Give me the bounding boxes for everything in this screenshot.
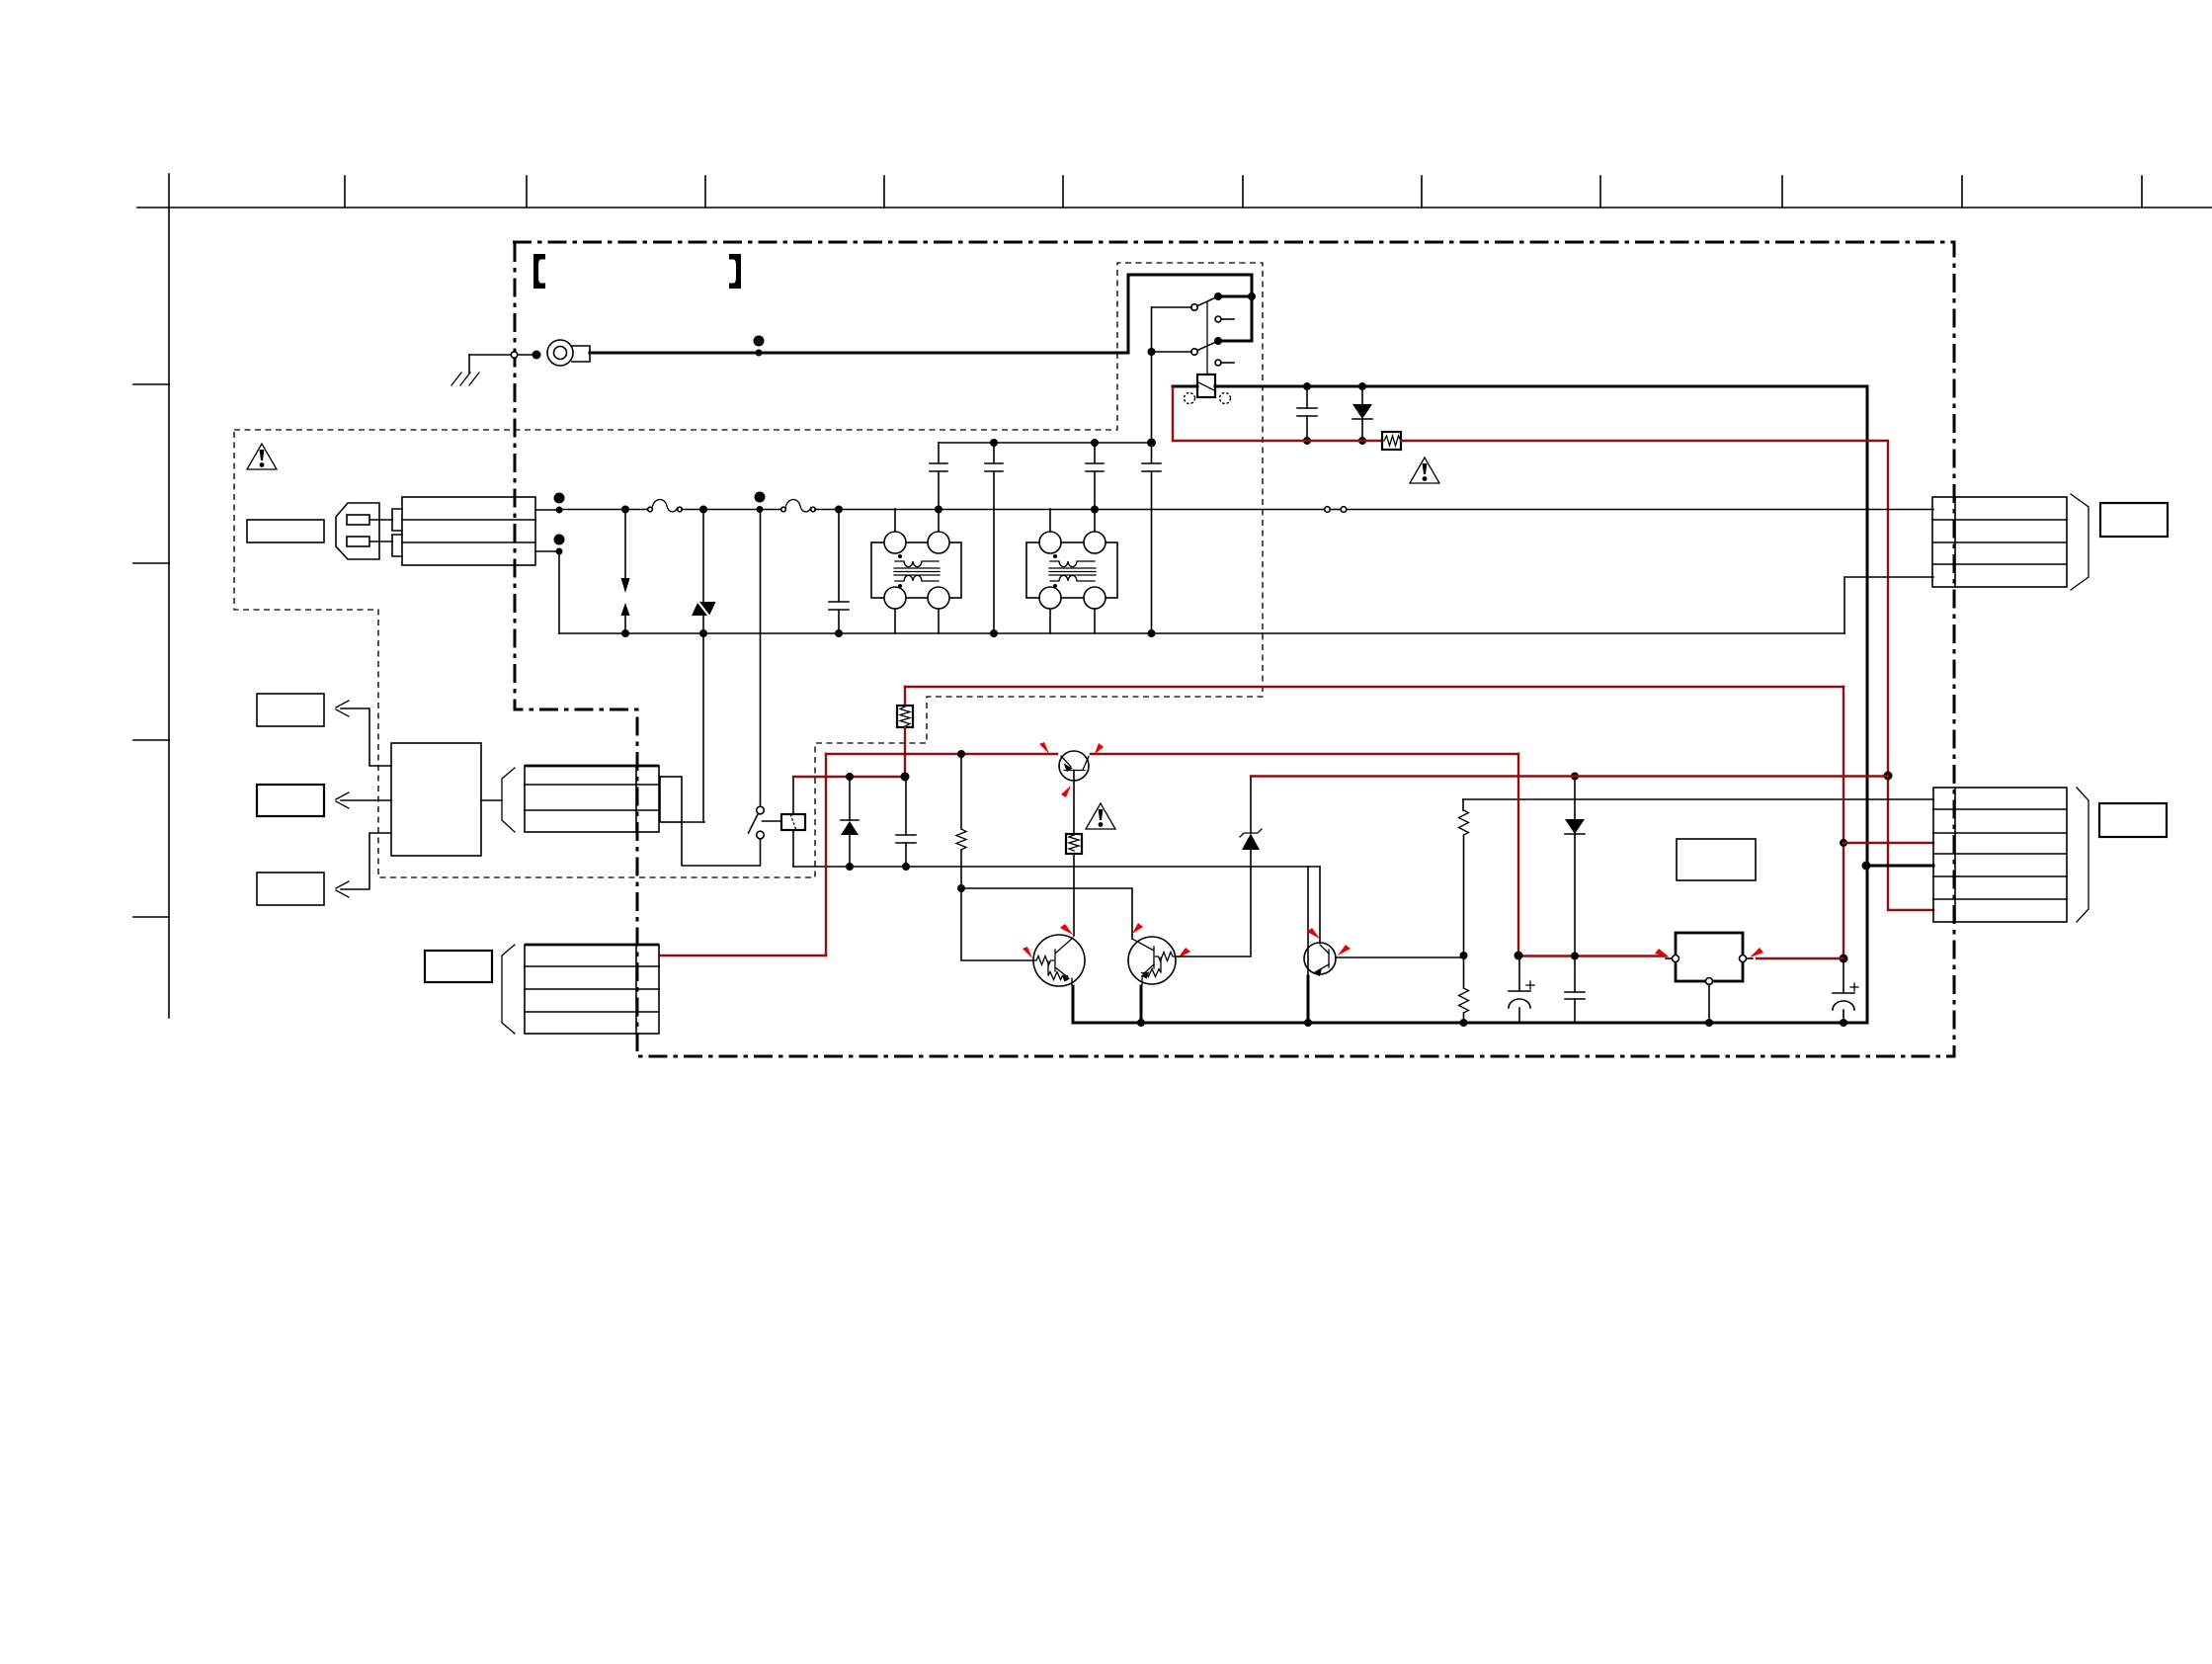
digital transistor Q3: [1128, 937, 1176, 985]
inline connector pins: [1325, 507, 1331, 513]
relay coil wire: [792, 777, 794, 867]
maroon branch wire: [793, 776, 905, 778]
clamp diode: [1565, 776, 1585, 992]
selector throw stub 1: [1215, 316, 1234, 322]
label box: [1677, 839, 1756, 880]
X-cap 1: [930, 443, 947, 509]
output electrolytic cap: [1833, 959, 1858, 1023]
control unit box: [391, 743, 481, 856]
filter electrolytic cap: [1509, 959, 1534, 1023]
wire: [682, 821, 704, 823]
aux box: [425, 951, 492, 982]
cable bracket B: [502, 945, 515, 1034]
selector mounting hole right: [1220, 393, 1231, 404]
snubber cap: [896, 777, 916, 867]
wire: [481, 799, 502, 801]
bracket glyph right: [729, 254, 741, 289]
ruler left line: [168, 174, 170, 1018]
bracket: [2071, 494, 2089, 590]
red mark: [1307, 928, 1320, 939]
red mark: [1061, 786, 1071, 797]
chevron 1: [336, 701, 349, 716]
live lead out of cord: [535, 509, 559, 511]
zener diode: [1240, 777, 1262, 957]
live wire segments: [559, 509, 648, 511]
Q3 emitter to bus: [1140, 986, 1143, 1023]
plug leads: [369, 520, 392, 541]
ruler left ticks: [133, 384, 169, 917]
selector throw stub 2: [1215, 360, 1234, 366]
regulator module: [1666, 933, 1753, 985]
bracket: [2077, 788, 2089, 922]
neutral riser to connector: [1844, 577, 1933, 633]
regulator output wire: [1757, 957, 1843, 959]
warning mark: [1410, 458, 1439, 483]
red mark: [1095, 743, 1104, 754]
power relay contacts: [749, 513, 782, 866]
plug box: [2099, 803, 2167, 837]
regulated feed wire: [1517, 754, 1519, 956]
digital transistor Q2: [1033, 935, 1085, 986]
pin dot pair on live wire: [755, 492, 766, 503]
sense wire to lower connector: [1463, 798, 1933, 800]
wire to Q2 base: [961, 888, 1033, 960]
Q4 collector from 0V line: [1319, 867, 1321, 943]
power cord: [402, 497, 535, 565]
plug prong 2: [347, 537, 369, 546]
Q4 emitter leg: [1307, 867, 1309, 976]
ruler top line: [137, 207, 2212, 208]
wire: [341, 799, 391, 801]
fusible resistor box: [897, 706, 913, 727]
ground bus wire thick: [590, 352, 1128, 355]
red mark: [1039, 742, 1049, 754]
pass transistor Q1: [1059, 751, 1089, 834]
supply rail riser: [825, 754, 827, 956]
red mark: [1132, 923, 1143, 934]
bus junction dots: [1137, 1019, 1145, 1027]
spark gap arrester: [621, 509, 630, 633]
AC plug blade: [247, 520, 324, 542]
ground wire: [469, 354, 511, 356]
AC inlet warning mark: [247, 444, 277, 469]
selector actuator box: [1197, 374, 1215, 397]
diode to bus: [1352, 382, 1372, 445]
red mark: [1338, 945, 1351, 956]
cable bracket A: [502, 768, 515, 832]
chevron 2: [336, 792, 349, 808]
X-cap bus: [939, 442, 1151, 444]
film cap: [1565, 992, 1585, 1023]
live wire junction dots: [621, 506, 629, 514]
junction dot: [533, 351, 541, 360]
red mark: [1750, 948, 1763, 957]
connector A header: [660, 777, 682, 822]
harness connector A: [525, 766, 659, 832]
Q3 base wire: [1176, 956, 1251, 957]
control box 3: [257, 873, 324, 905]
control box 1: [257, 694, 324, 726]
0V return line: [793, 866, 1320, 868]
pin dot pair on ground wire: [754, 336, 765, 347]
bracket glyph left: [533, 254, 545, 289]
base resistor box: [1066, 834, 1082, 854]
wire: [518, 354, 533, 356]
plug prong 1: [347, 515, 369, 525]
relay coil box: [781, 814, 805, 830]
cap across bus: [1297, 382, 1317, 445]
supply rail top run: [826, 753, 1518, 755]
feedback resistor chain: [1459, 799, 1469, 1027]
wire to Q3 collector: [961, 888, 1132, 939]
maroon riser to connectors: [1843, 687, 1844, 958]
cord step joints: [392, 509, 402, 556]
red mark: [1060, 924, 1073, 935]
ring lug terminal: [547, 340, 590, 366]
PCB board outline dash-dot: [513, 242, 1954, 1056]
output connector bottom: [1933, 788, 2067, 922]
red mark: [1655, 949, 1670, 957]
maroon distribution wire: [1252, 775, 1888, 777]
voltage selector pole 2: [1148, 337, 1253, 356]
raw supply resistor chain: [904, 687, 906, 706]
harness connector B: [525, 945, 659, 1034]
bias divider resistor: [956, 750, 966, 892]
regulator ground leg: [1708, 984, 1710, 1023]
selector mounting hole left: [1185, 393, 1195, 404]
AC plug body: [336, 503, 379, 559]
selector mechanical link: [1206, 302, 1208, 374]
fusible resistor box: [1382, 432, 1401, 450]
red mark: [1178, 948, 1190, 958]
snubber diode: [841, 777, 859, 867]
control box 2: [257, 785, 324, 816]
neutral lead out of cord: [535, 550, 559, 552]
transistor Q4: [1304, 943, 1336, 976]
supply wire from connector B: [660, 955, 826, 957]
collector wire down: [1073, 854, 1075, 936]
ground return to connector cell4: [1866, 865, 1933, 868]
X-cap 2: [985, 443, 1003, 633]
Q4 base wire: [1336, 957, 1463, 958]
thick switched bus to right: [1173, 385, 1197, 388]
raw supply rail: [905, 686, 1843, 688]
X-cap 4: [1142, 443, 1161, 633]
neutral bottom bus: [559, 632, 1844, 634]
selector common vertical wire: [1151, 307, 1153, 443]
fuse 2: [781, 499, 816, 511]
node open circle on board edge: [511, 352, 517, 358]
red control wire with fusible resistor: [1173, 387, 1382, 441]
line filter choke T1: [871, 509, 961, 633]
X-cap 3: [1086, 443, 1104, 509]
line filter choke T2: [1026, 509, 1117, 633]
dashed safety boundary box: [234, 263, 1263, 877]
red mark: [1023, 947, 1032, 958]
Q2 emitter to bus: [1072, 986, 1075, 1023]
varistor: [692, 509, 716, 822]
output connector top: [1932, 497, 2067, 587]
X-cap on neutral: [829, 509, 849, 633]
voltage selector pole 1: [1152, 292, 1256, 310]
ground wire riser to selector: [1128, 275, 1252, 353]
wire to relay contact: [682, 822, 760, 866]
wire to lower connector cell3: [1843, 842, 1933, 844]
warning mark: [1086, 803, 1115, 829]
wire: [341, 833, 391, 889]
chassis ground: [451, 355, 479, 385]
ruler top ticks: [345, 176, 2142, 208]
chevron 3: [336, 881, 349, 897]
plug box: [2100, 503, 2168, 537]
fuse 1: [648, 499, 683, 511]
wire: [341, 708, 391, 766]
